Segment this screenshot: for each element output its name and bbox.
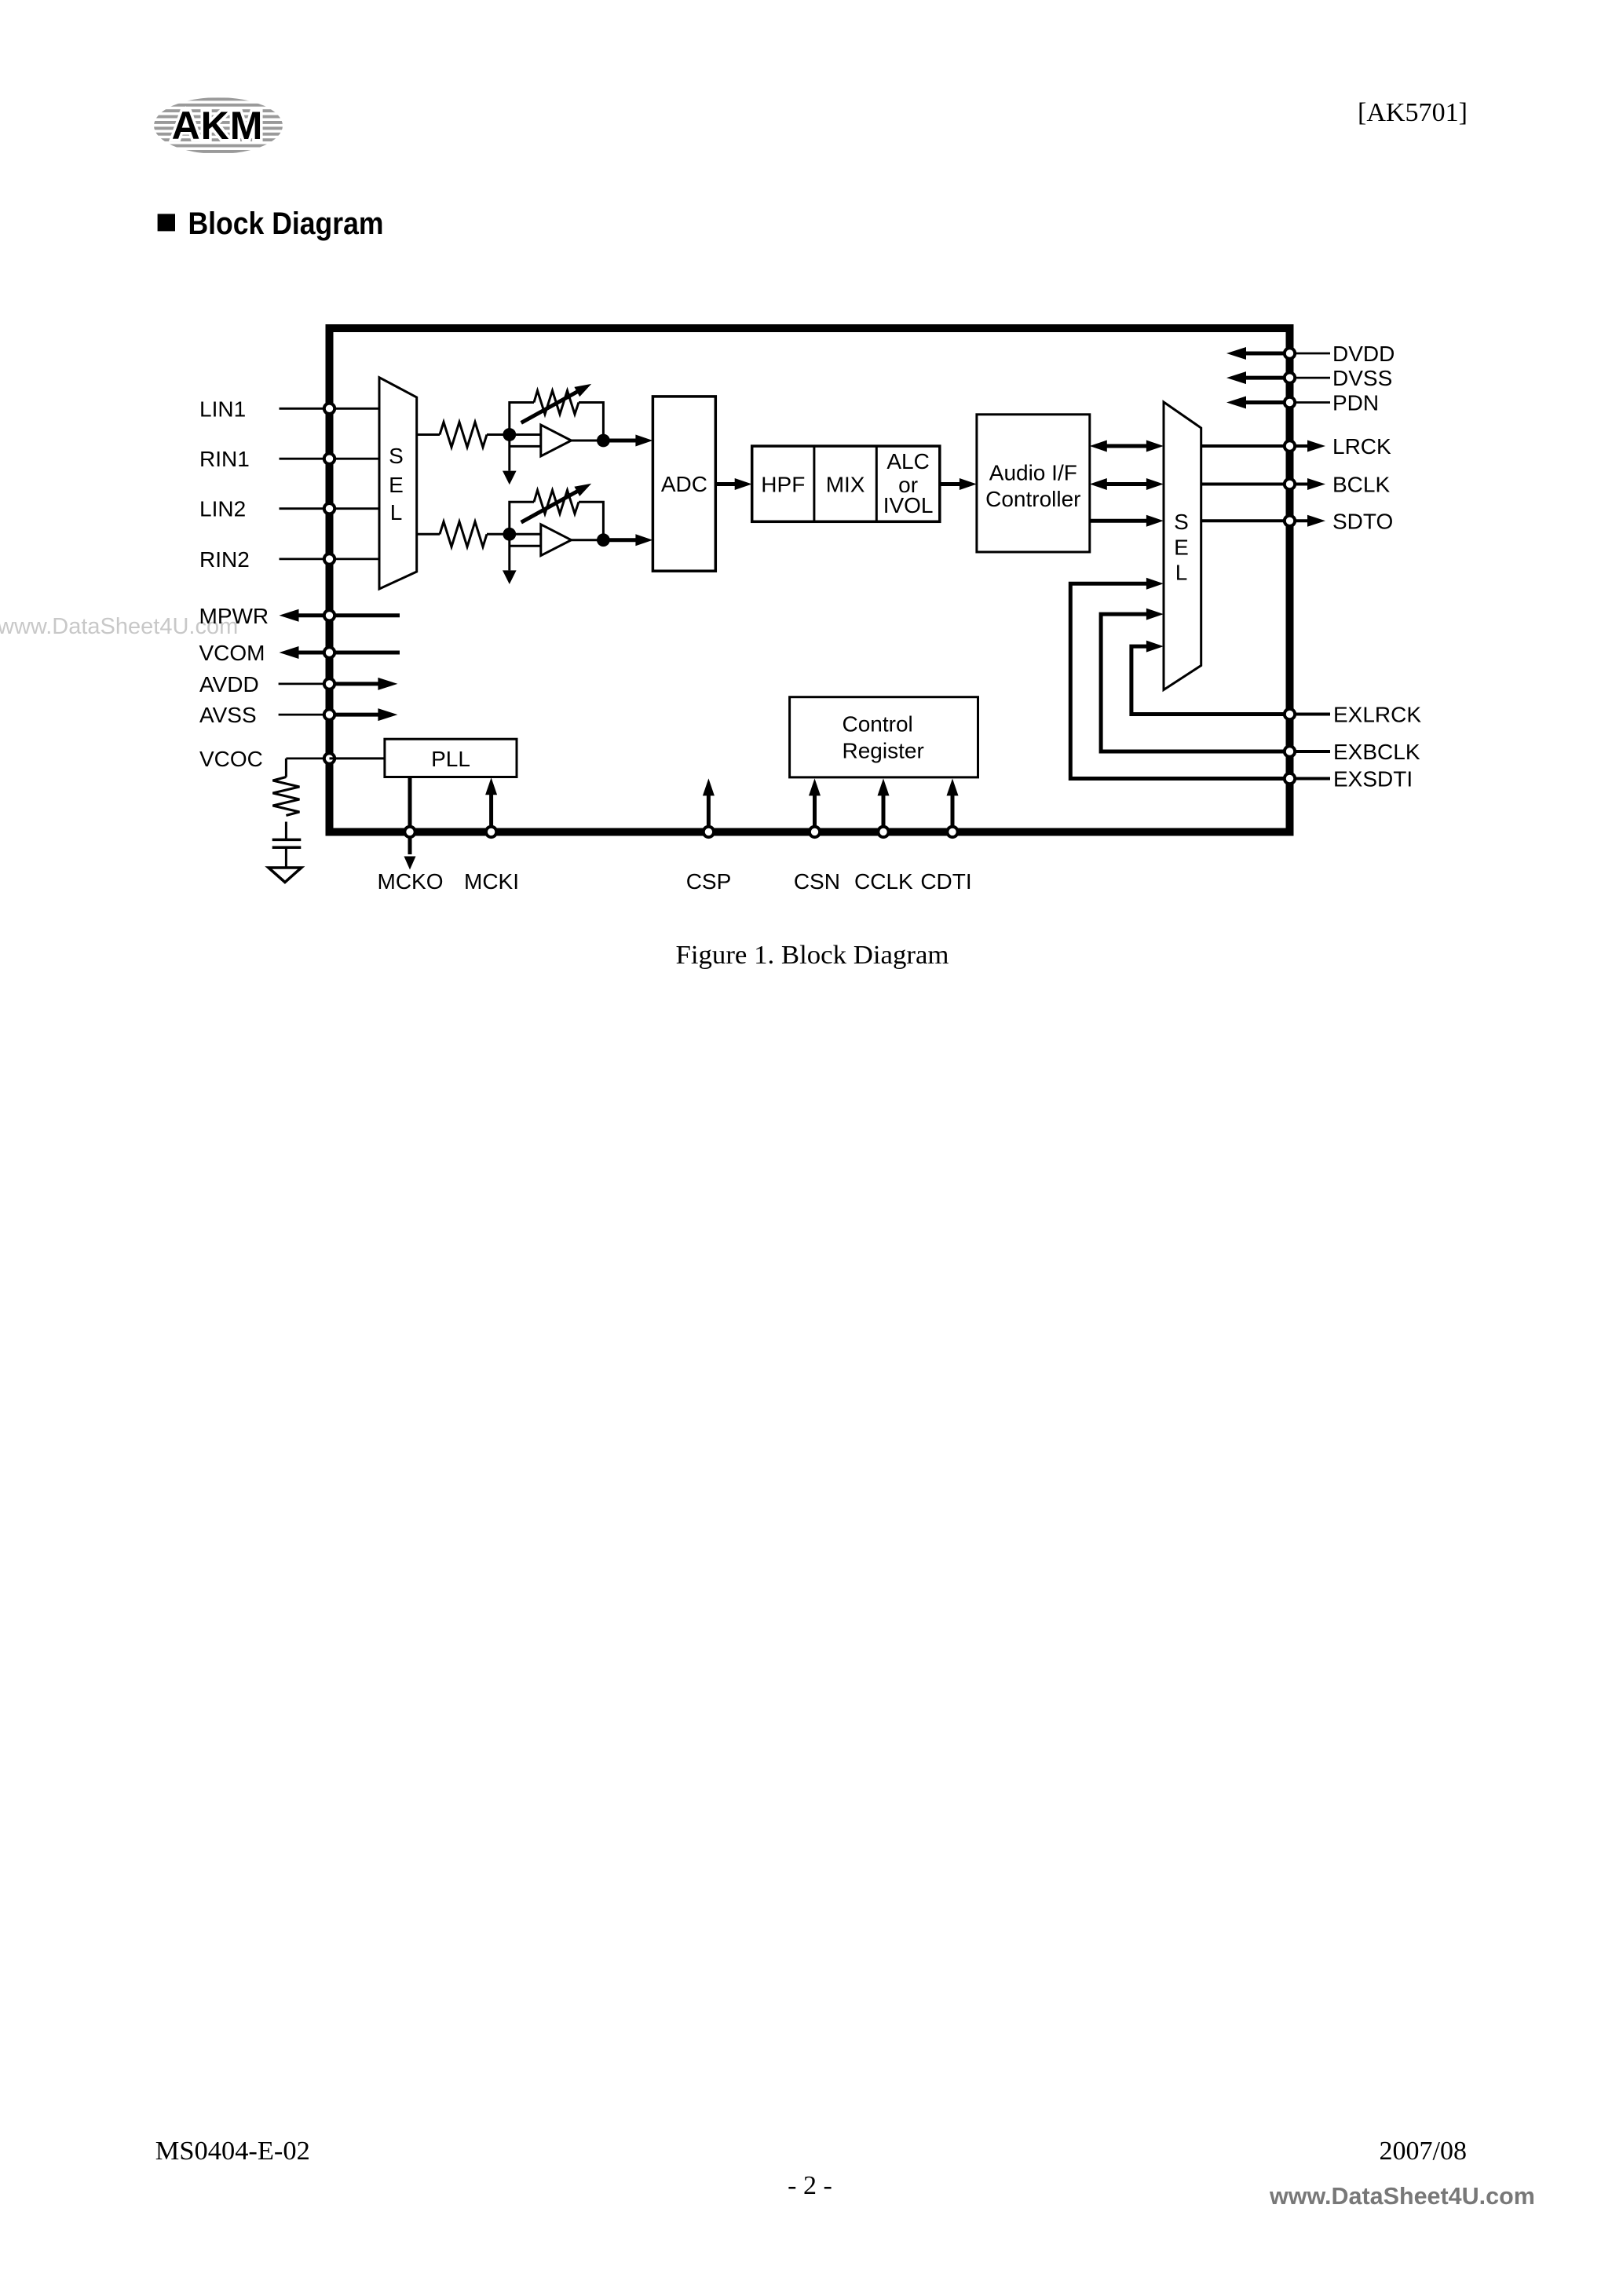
svg-text:RIN1: RIN1 bbox=[199, 447, 250, 471]
wire node to op-amp 1 bbox=[510, 433, 541, 436]
variable resistor VR1 bbox=[534, 391, 579, 415]
svg-text:VCOC: VCOC bbox=[199, 747, 263, 771]
svg-text:SDTO: SDTO bbox=[1332, 509, 1393, 533]
resistor R2 bbox=[440, 521, 487, 547]
feedback loop wire 2 bbox=[510, 502, 534, 534]
bidirectional arrow BCLK bbox=[1106, 482, 1147, 486]
wire node to ground 2 bbox=[508, 534, 510, 570]
svg-text:EXLRCK: EXLRCK bbox=[1333, 703, 1421, 727]
svg-text:AKM: AKM bbox=[172, 104, 264, 148]
pin BCLK bbox=[1201, 473, 1391, 497]
svg-text:HPF: HPF bbox=[761, 473, 805, 497]
svg-text:CDTI: CDTI bbox=[920, 869, 971, 894]
output selector SEL (right) bbox=[1164, 402, 1201, 690]
svg-text:PDN: PDN bbox=[1332, 391, 1379, 415]
svg-text:S: S bbox=[1174, 510, 1189, 534]
svg-text:L: L bbox=[1175, 561, 1188, 585]
svg-text:AVSS: AVSS bbox=[199, 703, 257, 727]
svg-text:IVOL: IVOL bbox=[883, 493, 934, 517]
arrow ADC to HPF bbox=[715, 482, 737, 486]
svg-text:LRCK: LRCK bbox=[1332, 434, 1391, 459]
svg-text:RIN2: RIN2 bbox=[199, 547, 250, 572]
wire node to ground 1 bbox=[508, 435, 510, 471]
ADC block bbox=[652, 397, 715, 571]
feedback loop wire 1 bbox=[510, 403, 534, 435]
svg-text:MPWR: MPWR bbox=[199, 604, 269, 628]
svg-text:PLL: PLL bbox=[431, 747, 470, 771]
input selector SEL (left) bbox=[379, 378, 417, 589]
external RC on VCOC bbox=[269, 759, 302, 883]
node N2 bbox=[503, 528, 516, 541]
pin AVSS bbox=[199, 703, 397, 727]
svg-text:Figure 1. Block Diagram: Figure 1. Block Diagram bbox=[676, 941, 949, 970]
Control Register block bbox=[790, 697, 978, 777]
pin MCKO bbox=[378, 777, 444, 894]
pin CCLK bbox=[854, 778, 913, 894]
pin LIN1 bbox=[199, 397, 379, 421]
arrow ALC to Audio IF bbox=[940, 482, 962, 486]
svg-text:E: E bbox=[1174, 536, 1189, 560]
pin CSP bbox=[686, 778, 732, 894]
svg-text:MS0404-E-02: MS0404-E-02 bbox=[155, 2137, 310, 2166]
ground arrow 1 bbox=[503, 471, 517, 485]
pin MCKI bbox=[464, 777, 519, 894]
pin EXBCLK and loop wire bbox=[1101, 609, 1420, 764]
pin EXSDTI and loop wire bbox=[1070, 578, 1413, 792]
pin VCOC bbox=[199, 747, 334, 771]
arrow to ADC 2 bbox=[603, 538, 638, 542]
pin MPWR bbox=[199, 604, 400, 628]
ground symbol bbox=[269, 868, 302, 883]
svg-text:www.DataSheet4U.com: www.DataSheet4U.com bbox=[1269, 2183, 1535, 2210]
pin PDN bbox=[1226, 391, 1379, 415]
svg-text:L: L bbox=[390, 500, 403, 525]
Audio I/F Controller block bbox=[977, 415, 1090, 552]
pin RIN1 bbox=[199, 447, 379, 471]
pin SDTO bbox=[1201, 509, 1394, 533]
svg-text:AVDD: AVDD bbox=[199, 672, 259, 696]
chip boundary box bbox=[330, 328, 1290, 832]
arrow SDTO to SEL bbox=[1090, 519, 1147, 523]
wire VCOC to PLL bbox=[330, 757, 385, 759]
svg-text:BCLK: BCLK bbox=[1332, 473, 1390, 497]
pin EXLRCK and loop wire bbox=[1131, 641, 1421, 727]
svg-text:Register: Register bbox=[843, 739, 924, 763]
svg-text:2007/08: 2007/08 bbox=[1380, 2137, 1467, 2166]
pin AVDD bbox=[199, 672, 397, 696]
AKM logo bbox=[149, 97, 287, 152]
svg-text:- 2 -: - 2 - bbox=[788, 2171, 832, 2200]
svg-text:Controller: Controller bbox=[985, 487, 1080, 511]
pin CDTI bbox=[920, 778, 971, 894]
output node 1 bbox=[597, 434, 610, 448]
ground arrow 2 bbox=[503, 570, 517, 584]
pin LIN2 bbox=[199, 497, 379, 521]
output node 2 bbox=[597, 533, 610, 547]
svg-text:EXSDTI: EXSDTI bbox=[1333, 767, 1413, 792]
svg-text:Control: Control bbox=[843, 711, 913, 736]
wire node to op-amp 2 bbox=[510, 533, 541, 536]
wire SEL to resistor 1 bbox=[417, 433, 440, 436]
heading Block Diagram bbox=[158, 207, 384, 241]
arrow to ADC 1 bbox=[603, 439, 638, 443]
svg-text:VCOM: VCOM bbox=[199, 641, 265, 665]
PLL block bbox=[385, 739, 517, 777]
svg-text:CSN: CSN bbox=[794, 869, 840, 894]
resistor R1 bbox=[440, 422, 487, 448]
pin VCOM bbox=[199, 641, 400, 665]
pin RIN2 bbox=[199, 547, 379, 572]
svg-text:E: E bbox=[389, 473, 404, 497]
svg-text:DVSS: DVSS bbox=[1332, 366, 1392, 390]
op-amp A1 bbox=[541, 425, 572, 456]
variable resistor VR2 bbox=[534, 490, 579, 514]
svg-text:MCKI: MCKI bbox=[464, 869, 519, 894]
wire SEL to resistor 2 bbox=[417, 533, 440, 536]
svg-text:DVDD: DVDD bbox=[1332, 342, 1395, 366]
pin DVDD bbox=[1226, 342, 1395, 366]
svg-text:Block Diagram: Block Diagram bbox=[188, 207, 384, 241]
svg-text:CSP: CSP bbox=[686, 869, 732, 894]
svg-text:EXBCLK: EXBCLK bbox=[1333, 740, 1420, 764]
svg-text:LIN2: LIN2 bbox=[199, 497, 246, 521]
svg-text:CCLK: CCLK bbox=[854, 869, 913, 894]
svg-text:ALC: ALC bbox=[886, 449, 929, 473]
wire resistor to node 1 bbox=[487, 433, 510, 436]
HPF MIX ALC block bbox=[752, 446, 940, 521]
pin CSN bbox=[794, 778, 840, 894]
pin LRCK bbox=[1201, 434, 1391, 459]
bidirectional arrow LRCK bbox=[1106, 444, 1147, 448]
wire resistor to node 2 bbox=[487, 533, 510, 536]
svg-text:MCKO: MCKO bbox=[378, 869, 444, 894]
wire op-amp output 2 bbox=[572, 539, 604, 541]
svg-text:ADC: ADC bbox=[661, 472, 707, 496]
svg-text:MIX: MIX bbox=[826, 473, 865, 497]
node N1 bbox=[503, 428, 516, 441]
pin DVSS bbox=[1226, 366, 1392, 390]
svg-text:LIN1: LIN1 bbox=[199, 397, 246, 421]
svg-text:Audio I/F: Audio I/F bbox=[989, 461, 1077, 485]
wire op-amp output 1 bbox=[572, 440, 604, 442]
svg-text:[AK5701]: [AK5701] bbox=[1358, 98, 1468, 127]
op-amp A2 bbox=[541, 525, 572, 556]
svg-text:S: S bbox=[389, 444, 404, 468]
